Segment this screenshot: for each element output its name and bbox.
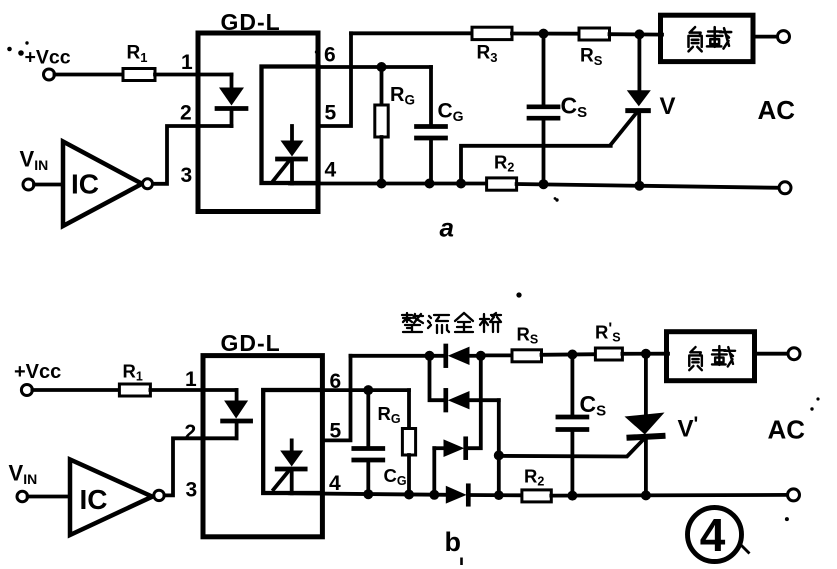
node junction AC2 bottom rail (b) <box>494 490 504 500</box>
wire pin 5 up to top rail (a) <box>319 33 352 126</box>
wire Rs to Cs node (b) <box>542 352 598 356</box>
pin 4 label (b) <box>329 472 341 495</box>
node Vcc input terminal (b) <box>21 385 32 396</box>
pin 3 label (b) <box>186 479 198 502</box>
wire Vcc terminal to R1 (a) <box>55 73 124 77</box>
node junction D3 anode bottom rail (b) <box>429 490 439 500</box>
wire VIN to IC (b) <box>28 495 70 499</box>
svg-text:a: a <box>440 213 454 243</box>
node VIN input terminal (a) <box>23 179 34 190</box>
photo-triac (a) <box>274 126 306 184</box>
wire DC+ node down to D2 (b) <box>430 356 446 400</box>
resistor R2 (a) <box>487 152 517 191</box>
wire V gate to R2 left node (a) <box>461 146 611 184</box>
svg-text:2: 2 <box>185 421 197 444</box>
optocoupler GD-L package box (a) <box>198 33 318 212</box>
capacitor CG (a) <box>417 67 464 184</box>
photo-triac inner box (a) <box>262 67 319 184</box>
node junction RG bottom (b) <box>404 490 414 500</box>
node junction CG top (b) <box>363 385 373 395</box>
wire IC output to pin 2 (b) <box>165 438 237 495</box>
label rectifier bridge glyphs (b) <box>402 294 521 334</box>
node junction V anode top (a) <box>634 29 644 39</box>
wire gate node down to bottom rail (b) <box>497 455 501 495</box>
node AC top terminal (b) <box>788 348 800 360</box>
pin 5 label (a) <box>325 102 337 125</box>
wire bottom rail right segment (b) <box>551 493 788 498</box>
node junction RG bottom (a) <box>377 179 387 189</box>
node junction Cs bottom (a) <box>539 179 549 189</box>
pin 3 label (a) <box>181 164 193 187</box>
pin 2 label (a) <box>180 102 192 125</box>
photo-triac (b) <box>274 440 306 493</box>
svg-text:b: b <box>445 527 462 557</box>
node junction RG top (a) <box>377 62 387 72</box>
node AC top terminal (a) <box>778 31 790 43</box>
label GD-L (a) <box>221 9 281 35</box>
svg-text:2: 2 <box>180 102 192 125</box>
svg-text:GD-L: GD-L <box>221 9 281 35</box>
svg-text:4: 4 <box>700 509 726 561</box>
label VIN (a) <box>20 147 49 174</box>
node AC bottom terminal (b) <box>785 489 800 521</box>
wire load to AC terminal (a) <box>753 35 778 39</box>
node junction Cs top (b) <box>567 350 577 360</box>
svg-text:V: V <box>660 93 676 120</box>
wire gate node to V' gate (b) <box>499 438 645 457</box>
svg-text:4: 4 <box>325 159 337 182</box>
svg-text:3: 3 <box>186 479 198 502</box>
diode D4 of bridge <box>446 486 469 504</box>
svg-text:5: 5 <box>325 102 337 125</box>
svg-text:GD-L: GD-L <box>221 330 281 356</box>
label AC (b) <box>768 397 820 444</box>
wire top rail left segment (a) <box>351 31 474 35</box>
wire load to AC terminal (b) <box>755 352 789 356</box>
node junction V' cathode bottom (b) <box>641 490 651 500</box>
wire AC1 node down to D3 cathode (b) <box>467 356 481 448</box>
node AC bottom terminal (a) <box>779 182 791 194</box>
LED D inside GD-L (b) <box>223 390 251 438</box>
wire top rail left segment (b) <box>351 354 446 358</box>
resistor R1 (b) <box>119 361 150 397</box>
wire pin 5 up to top rail (b) <box>322 356 350 441</box>
LED D inside GD-L (a) <box>217 75 246 127</box>
svg-text:AC: AC <box>758 95 796 125</box>
wire VIN to IC (a) <box>34 183 63 187</box>
resistor Rs (a) <box>579 28 610 68</box>
svg-text:1: 1 <box>185 368 197 391</box>
svg-text:IC: IC <box>71 169 99 200</box>
resistor R's (b) <box>595 321 622 361</box>
svg-text:IC: IC <box>80 484 108 515</box>
load box (b) with glyphs <box>667 332 755 381</box>
wire D2 anode down to gate node (b) <box>497 400 501 455</box>
node Vcc input terminal (a) <box>44 69 55 80</box>
label +Vcc (a) <box>7 41 71 68</box>
node VIN input terminal (b) <box>17 491 28 502</box>
wire D4 to R2 (b) <box>468 493 524 497</box>
svg-text:3: 3 <box>181 164 193 187</box>
wire R1 to pin 1 and LED anode (a) <box>155 73 232 77</box>
resistor R1 (a) <box>123 43 155 81</box>
wire bottom rail left segment pin 4 (b) <box>290 493 446 495</box>
wire R's to load (b) <box>622 352 668 356</box>
pin 2 label (b) <box>185 421 197 444</box>
node junction bridge DC+ (b) <box>425 351 435 361</box>
svg-text:AC: AC <box>768 415 806 445</box>
pin 1 label (a) <box>181 51 193 74</box>
pin 6 label (b) <box>330 370 342 393</box>
label VIN (b) <box>9 461 38 488</box>
load box (a) with glyphs <box>661 15 754 61</box>
diode D3 of bridge <box>434 439 465 458</box>
label b <box>445 527 462 565</box>
wire bottom rail right segment (a) <box>517 184 780 188</box>
label +Vcc (b) <box>14 361 61 383</box>
node junction D1 anode AC1 (b) <box>476 351 486 361</box>
thyristor V' (b) <box>625 354 699 496</box>
wire Rs to load (a) <box>610 32 663 36</box>
node junction CG bottom (a) <box>425 179 435 189</box>
wire pin 6 to CG and RG tops (b) <box>322 388 409 392</box>
pin 4 label (a) <box>325 159 337 182</box>
wire Vcc terminal to R1 (b) <box>32 388 119 392</box>
resistor RG (a) <box>375 67 415 184</box>
diode D2 of bridge <box>446 390 499 410</box>
wire R3 to Cs node (a) <box>512 32 581 36</box>
label AC (a) <box>758 95 796 125</box>
label GD-L (b) <box>221 330 281 356</box>
svg-text:1: 1 <box>181 51 193 74</box>
photo-triac inner box (b) <box>263 390 322 493</box>
pin 5 label (b) <box>330 420 342 443</box>
wire R1 to pin 1 and LED anode (b) <box>150 388 236 392</box>
svg-text:+Vcc: +Vcc <box>14 361 61 383</box>
inverter IC (a) <box>63 142 153 227</box>
node junction Cs bottom (b) <box>567 491 577 501</box>
wire IC output to pin 2 (a) <box>153 126 232 184</box>
resistor R2 (b) <box>522 466 551 502</box>
wire bottom rail left segment (a) <box>290 182 488 186</box>
diode D1 of bridge <box>446 346 481 366</box>
inverter IC (b) <box>70 460 164 536</box>
node junction gate AC2 (b) <box>494 450 504 460</box>
pin 1 label (b) <box>185 368 197 391</box>
node junction V' anode top (b) <box>641 349 651 359</box>
node junction CG bottom (b) <box>363 489 373 499</box>
svg-text:4: 4 <box>329 472 341 495</box>
capacitor Cs (b) <box>558 355 606 496</box>
pin 6 label (a) <box>315 44 336 67</box>
svg-text:+Vcc: +Vcc <box>25 47 71 69</box>
node junction V cathode bottom (a) <box>634 181 644 191</box>
resistor RG (b) <box>378 390 416 495</box>
wire D3 anode down to bottom rail (b) <box>432 448 436 495</box>
node junction gate riser (a) <box>456 179 466 189</box>
thyristor V (a) <box>611 34 676 185</box>
capacitor Cs (a) <box>529 34 587 184</box>
optocoupler GD-L package box (b) <box>203 356 322 537</box>
node junction Cs top (a) <box>539 29 549 39</box>
figure number circled 4 <box>688 508 750 562</box>
svg-text:6: 6 <box>324 44 336 67</box>
capacitor CG (b) <box>354 390 407 494</box>
resistor Rs (b) <box>512 324 542 362</box>
resistor R3 (a) <box>472 27 512 65</box>
wire pin 6 to RG and CG tops (a) <box>319 65 432 69</box>
label a <box>440 197 559 242</box>
wire AC1 to Rs (b) <box>481 353 514 357</box>
